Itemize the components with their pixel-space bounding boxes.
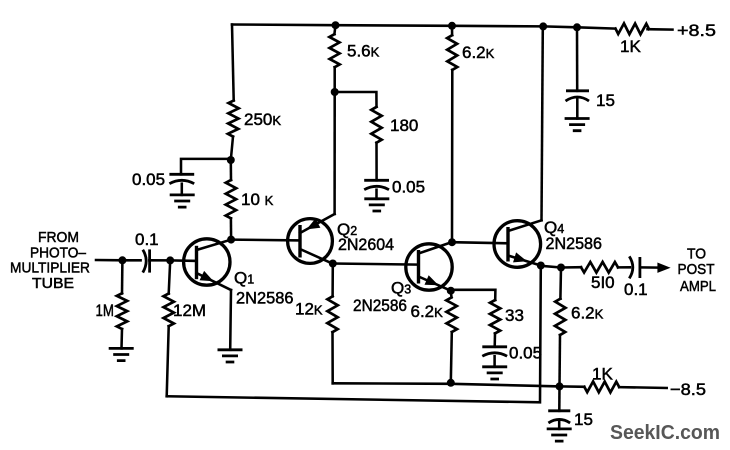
wire: emitter node to 510 [561, 266, 581, 269]
capacitor 0.05 (Q2 emitter bypass) [364, 178, 425, 197]
svg-text:10 K: 10 K [241, 190, 274, 209]
ground (Q1 emitter) [218, 350, 243, 362]
wire: node to 1K [560, 385, 585, 388]
svg-text:180: 180 [390, 116, 418, 135]
resistor 510 (output series) [581, 262, 618, 292]
node: -8.5 rail junction [556, 382, 564, 390]
svg-text:2N2586: 2N2586 [353, 297, 407, 315]
svg-text:Q3: Q3 [391, 279, 411, 298]
wire: 180 down to 0.05 cap [375, 143, 378, 181]
resistor 1M [96, 260, 128, 329]
resistor 10K [226, 160, 274, 218]
svg-text:15: 15 [574, 410, 593, 429]
wire + arrow: output to post amplifier [640, 263, 671, 273]
resistor 1K (-8.5 supply feed) [584, 365, 619, 393]
svg-text:12K: 12K [295, 300, 323, 319]
svg-text:6.2K: 6.2K [571, 304, 604, 323]
wire: 6.2K down to Q3 collector node [451, 70, 454, 242]
text: input terminal FROM PHOTOMULTIPLIER TUBE [10, 229, 90, 292]
wire + ground (under 33 bypass cap) [482, 356, 507, 379]
wire: cap to ground stem [181, 184, 184, 195]
node: -8.5 supply terminal [670, 380, 706, 399]
svg-text:TUBE: TUBE [32, 275, 74, 292]
svg-text:15: 15 [596, 91, 615, 110]
node: Q4 emitter junction (feedback takeoff) [537, 262, 545, 270]
resistor 5.6K [329, 25, 379, 92]
svg-text:6.2K: 6.2K [462, 43, 495, 62]
wire: feedback run along bottom to Q4 emitter [167, 266, 541, 403]
text: TO POST AMPL output terminal [678, 246, 717, 296]
svg-text:12M: 12M [173, 301, 206, 320]
resistor 1K (top, +8.5 supply feed) [616, 23, 650, 56]
wire: 33 down to 0.05 cap [493, 333, 496, 346]
wire + ground (under top 15 cap) [565, 99, 590, 131]
capacitor 15 (positive rail bypass) [566, 91, 615, 110]
svg-text:5.6K: 5.6K [347, 42, 380, 61]
wire: Q4 emitter node to second node [541, 266, 561, 268]
resistor 6.2K (top, Q3 collector load) [447, 26, 495, 70]
resistor 180 [371, 107, 418, 143]
transistor Q3 2N2586 [353, 242, 452, 315]
svg-text:0.1: 0.1 [135, 230, 159, 249]
resistor 6.2K (Q4 emitter) [555, 268, 604, 336]
wire: junction right and down to 180 [335, 92, 377, 107]
wire: 10K bottom to node B [230, 218, 233, 239]
svg-text:2N2604: 2N2604 [338, 236, 394, 254]
svg-text:−8.5: −8.5 [670, 380, 706, 399]
wire: top supply rail [232, 25, 615, 29]
svg-text:6.2K: 6.2K [411, 302, 444, 321]
node: input junction (1M / 0.1 cap) [118, 256, 140, 264]
svg-text:AMPL: AMPL [680, 278, 716, 295]
wire: 6.2K down to -8.5 node [558, 335, 561, 386]
node: rail junction for 5.6K [332, 21, 340, 29]
svg-text:250K: 250K [244, 110, 281, 129]
capacitor 0.05 (Q3 emitter bypass) [482, 344, 542, 363]
svg-text:2N2586: 2N2586 [236, 290, 294, 308]
wire: rail segment after 1K to +8.5 terminal [648, 28, 673, 31]
node: rail junction Q4 collector [539, 22, 547, 30]
wire: 250K bottom to node A [231, 137, 233, 161]
svg-text:SeekIC.com: SeekIC.com [610, 421, 720, 444]
wire: node A left to 0.05 bypass cap [181, 159, 231, 174]
svg-text:0.1: 0.1 [624, 280, 648, 299]
ground (under left 0.05 cap) [170, 195, 195, 207]
transistor Q4 2N2586 [494, 218, 602, 267]
resistor 6.2K (Q3 emitter) [411, 291, 458, 332]
node: Q3 collector / Q4 base junction [448, 238, 456, 246]
wire: Q2 collector node to Q3 base [333, 264, 419, 265]
transistor Q2 2N2604 [288, 214, 394, 263]
wire: Q1 emitter to ground [229, 290, 232, 350]
wire: 6.2K down to bottom rail node [451, 332, 452, 383]
wire + ground (under 1M) [109, 329, 134, 361]
node B: junction Q1 collector / Q2 base / 10K [227, 236, 235, 244]
node A: junction 250K / 10K / 0.05 cap [227, 156, 235, 164]
svg-text:+8.5: +8.5 [677, 21, 716, 40]
svg-text:Q1: Q1 [234, 269, 254, 288]
node: Q1 base junction (12M) [166, 256, 196, 264]
wire + ground (under 180 bypass cap) [364, 190, 389, 211]
wire: Q3 collector node to Q4 base [452, 242, 508, 243]
wire: 12M down to feedback run [167, 326, 169, 396]
node: 5.6K / Q2 emitter / 180 junction [331, 88, 339, 96]
wire: 510 to output 0.1 cap [618, 266, 630, 269]
capacitor 15 (negative rail bypass) [548, 386, 593, 429]
svg-text:0.05: 0.05 [509, 344, 542, 363]
capacitor 0.1 (input coupling) [135, 230, 159, 273]
node: rail junction for 6.2K [448, 22, 456, 30]
capacitor 0.05 (left bypass) [132, 170, 194, 189]
wire: Q4 collector up to rail [542, 26, 543, 220]
svg-text:1M: 1M [96, 301, 115, 320]
svg-text:TO: TO [687, 246, 706, 263]
wire + ground (under bottom 15 cap) [547, 421, 572, 441]
node: Q3 emitter junction [447, 287, 455, 295]
wire: Q3 emitter node right to 33 [451, 290, 496, 300]
wire: 12K to bottom rail corner [331, 332, 334, 383]
svg-text:2N2586: 2N2586 [546, 235, 603, 253]
wire: 0.1 cap to Q1 base node [149, 259, 170, 262]
text: SeekIC.com watermark [610, 421, 720, 444]
svg-text:33: 33 [505, 306, 524, 325]
resistor 12K [295, 264, 338, 333]
node: Q2 collector junction (12K / Q3 base) [329, 260, 337, 268]
wire: rail to 15 cap [576, 27, 579, 91]
svg-text:0.05: 0.05 [392, 178, 425, 197]
capacitor 0.1 (output coupling) [624, 256, 648, 299]
resistor 12M (feedback from Q4 emitter) [164, 260, 207, 326]
svg-text:5I0: 5I0 [591, 273, 615, 292]
node: rail junction 15 cap [573, 23, 581, 31]
wire: node B to Q2 base [231, 238, 300, 241]
svg-text:0.05: 0.05 [132, 170, 165, 189]
wire: Q2 emitter up to 5.6K node [333, 92, 336, 214]
wire: 1K to -8.5 terminal [619, 386, 667, 389]
wire: input lead [96, 259, 122, 262]
wire: left column from rail corner down to 250K [232, 25, 234, 101]
node +8.5 supply terminal [677, 21, 716, 40]
node: bottom rail junction [447, 379, 455, 387]
svg-text:1K: 1K [620, 37, 641, 56]
transistor Q1 2N2586 [184, 239, 294, 308]
wire: bottom negative rail [333, 383, 560, 386]
svg-text:POST: POST [678, 261, 715, 278]
resistor 33 [490, 300, 524, 333]
resistor 250K [228, 101, 281, 137]
node: Q4 emitter junction (6.2K) [557, 264, 565, 272]
svg-text:1K: 1K [592, 365, 613, 384]
